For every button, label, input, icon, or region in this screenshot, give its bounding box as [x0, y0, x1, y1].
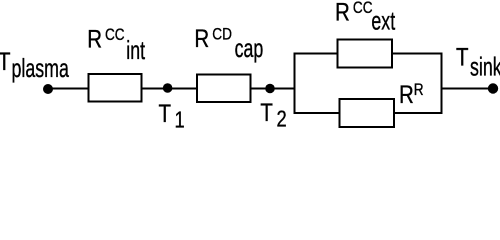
svg-text:T: T: [159, 99, 172, 127]
svg-text:T: T: [0, 47, 11, 75]
svg-text:ext: ext: [371, 6, 395, 35]
svg-text:plasma: plasma: [12, 53, 70, 82]
svg-text:CD: CD: [212, 25, 232, 44]
node T_1 dot: [163, 83, 173, 93]
resistor R-CC-int box: [89, 74, 142, 102]
svg-text:1: 1: [175, 108, 185, 133]
wire main horizontal from T_plasma node to left vertical bus: [48, 88, 296, 90]
svg-text:T: T: [260, 98, 273, 126]
wire right vertical bus of parallel section: [441, 53, 443, 115]
label T_plasma: [0, 47, 69, 83]
svg-text:int: int: [126, 36, 145, 65]
resistor R-CD-cap box: [197, 75, 251, 103]
label R-CC-int: [87, 25, 145, 65]
node T_2 dot: [265, 84, 275, 94]
wire left vertical bus of parallel section: [294, 53, 296, 115]
svg-text:T: T: [456, 43, 469, 71]
svg-text:R: R: [335, 0, 350, 26]
svg-text:cap: cap: [235, 34, 264, 63]
wire bottom branch: [294, 112, 443, 114]
svg-text:R: R: [414, 81, 424, 100]
resistor R-CC-ext box: [338, 40, 393, 68]
label T_1: [159, 99, 185, 133]
svg-text:R: R: [87, 25, 102, 53]
node T_plasma dot: [43, 84, 53, 94]
node T_sink dot: [488, 83, 498, 93]
label R-CC-ext: [335, 0, 396, 35]
wire output to T_sink node: [441, 88, 494, 90]
wire top branch: [294, 53, 443, 55]
label R-CD-cap: [194, 24, 263, 63]
svg-text:CC: CC: [353, 0, 373, 18]
label T_2: [260, 98, 286, 132]
svg-text:R: R: [194, 24, 209, 52]
svg-text:CC: CC: [105, 25, 125, 44]
label T_sink: [456, 43, 500, 82]
resistor R-R box: [340, 99, 395, 127]
svg-text:sink: sink: [470, 52, 500, 81]
svg-text:2: 2: [277, 107, 287, 132]
label R-R: [399, 80, 424, 108]
svg-text:R: R: [399, 80, 414, 108]
